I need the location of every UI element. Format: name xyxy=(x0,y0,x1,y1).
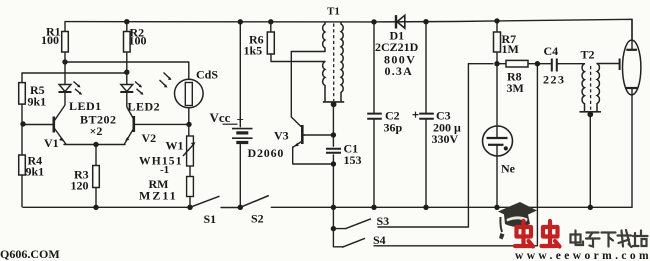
wire: W1 to RM xyxy=(189,166,191,177)
wire: R8/C4 row xyxy=(497,63,585,65)
label R3 value xyxy=(71,168,89,193)
resistor R7 xyxy=(494,32,501,52)
node: R7 top junction xyxy=(494,18,499,23)
wire: T2 bottom lead xyxy=(589,112,591,208)
node: CdS/W1/V2-base junction xyxy=(186,122,191,127)
svg-text:S4: S4 xyxy=(373,233,386,247)
wire: T1 secondary bottom down through C1 to S3/S4 xyxy=(333,105,342,247)
wire: R1 bottom to CdS top (node A) xyxy=(65,62,189,83)
flash tube trigger electrode xyxy=(619,59,621,71)
svg-text:Ne: Ne xyxy=(501,162,516,176)
label RM MZ11 xyxy=(139,177,178,203)
node: C3 top junction xyxy=(423,19,428,24)
node: battery top junction xyxy=(238,19,243,24)
LED LED1 xyxy=(59,62,83,105)
svg-text:1k5: 1k5 xyxy=(244,44,263,58)
capacitor C2 xyxy=(367,114,382,119)
svg-text:Vcc: Vcc xyxy=(210,110,231,125)
photoresistor CdS xyxy=(160,73,204,108)
wire: R7 leads xyxy=(496,21,498,64)
svg-text:36p: 36p xyxy=(384,121,403,135)
label R4 value xyxy=(26,154,45,179)
svg-text:LED1: LED1 xyxy=(69,99,102,113)
node: C1 line bottom rail junction xyxy=(331,205,336,210)
node: R2 top junction xyxy=(124,19,129,24)
svg-text:+: + xyxy=(237,112,244,127)
svg-text:Q606.COM: Q606.COM xyxy=(0,247,60,261)
node: C2 bottom rail junction xyxy=(371,205,376,210)
transformer T2 primary winding xyxy=(582,64,584,112)
wire: S4 output to R8/C4 node xyxy=(374,64,537,246)
wire: bottom rail segment right xyxy=(271,206,632,208)
svg-text:-1: -1 xyxy=(160,164,169,176)
switch S4 xyxy=(342,238,365,247)
svg-text:V2: V2 xyxy=(142,131,157,145)
svg-text:LED2: LED2 xyxy=(128,100,161,114)
svg-text:100: 100 xyxy=(129,34,147,48)
wire: T2 secondary to trigger electrode xyxy=(597,63,620,65)
resistor R2 xyxy=(124,22,131,72)
transistor V3 xyxy=(293,125,305,147)
node: V3 base / C1 top junction xyxy=(331,132,336,137)
label C1 value xyxy=(344,142,362,168)
wire: R6 bottom to T1 feedback winding xyxy=(271,54,325,62)
wire: C3 branch vertical xyxy=(425,22,427,208)
node: V3 emitter / C1 bottom junction xyxy=(331,161,336,166)
label R1 value xyxy=(41,25,61,48)
svg-text:S3: S3 xyxy=(377,214,390,228)
svg-text:D2060: D2060 xyxy=(248,146,285,160)
resistor R8 (horizontal) xyxy=(506,60,528,67)
watermark chong glyph 2 (red) xyxy=(542,221,560,247)
svg-text:www.eeworm.com: www.eeworm.com xyxy=(515,250,650,261)
transformer T2 secondary winding xyxy=(597,64,599,112)
svg-text:9k1: 9k1 xyxy=(28,95,47,109)
svg-text:3M: 3M xyxy=(507,81,524,95)
node: R6 top junction xyxy=(268,19,273,24)
svg-text:100: 100 xyxy=(41,33,59,47)
wire: T1 primary bottom to V3 collector xyxy=(291,52,325,127)
wire: R5 top to LED2 anode (node B) xyxy=(22,72,127,74)
capacitor C1 xyxy=(326,149,341,153)
label D1 value xyxy=(375,29,419,79)
wire: C2 branch vertical xyxy=(373,22,375,207)
wire: Ne bottom lead xyxy=(496,145,498,208)
svg-text:W1: W1 xyxy=(166,139,184,153)
wire: bottom rail segment S1-S2 xyxy=(221,207,240,209)
battery Vcc xyxy=(223,124,253,142)
node: battery bottom rail junction (S2 pivot) xyxy=(238,205,243,210)
neon lamp Ne xyxy=(483,126,513,156)
transformer T1 primary winding xyxy=(323,22,325,52)
wire: flash tube top lead xyxy=(631,19,633,50)
wire: V1-V2 emitter rail xyxy=(64,144,125,146)
svg-text:V1: V1 xyxy=(44,136,59,150)
transformer T1 secondary winding xyxy=(341,22,343,102)
capacitor C4 xyxy=(552,59,557,72)
label WH151 xyxy=(139,156,183,177)
label C3 value xyxy=(432,109,462,147)
label R2 value xyxy=(129,26,147,48)
node: S3 pivot junction xyxy=(331,226,336,231)
wire: V2 base to W1 node xyxy=(135,123,190,125)
resistor R4 xyxy=(19,124,26,207)
transformer T1 feedback winding xyxy=(323,62,325,102)
label C4 value xyxy=(543,44,566,87)
svg-text:CdS: CdS xyxy=(196,68,218,82)
label C2 value xyxy=(384,109,403,135)
transistor V2 xyxy=(124,107,134,144)
transformer T1 bottom bar xyxy=(323,101,344,103)
switch S3 xyxy=(345,219,371,229)
transformer T2 core xyxy=(590,66,592,111)
svg-text:V3: V3 xyxy=(274,129,289,143)
node: Ne bottom rail junction xyxy=(494,205,499,210)
node: R3 bottom rail junction xyxy=(93,205,98,210)
node: R7 bottom / R8 / Ne junction xyxy=(494,61,499,66)
svg-text:153: 153 xyxy=(344,153,362,167)
transformer T2 bottom bar xyxy=(580,111,602,113)
svg-text:T1: T1 xyxy=(327,6,340,18)
wire: V3 emitter to C1 bottom node xyxy=(293,147,334,164)
wire: S3 output to R7 bottom node xyxy=(333,64,493,229)
wire: battery positive lead (Vcc vertical) xyxy=(239,22,241,127)
wire: V1 base from R5/R4 node xyxy=(23,124,53,126)
svg-text:0.3A: 0.3A xyxy=(385,64,413,78)
label R8 value xyxy=(507,70,524,96)
resistor R3 xyxy=(93,145,100,208)
LED LED2 xyxy=(120,72,143,107)
node: emitter rail / R3 junction xyxy=(93,142,98,147)
wire: Ne top lead xyxy=(496,64,498,138)
resistor R5 xyxy=(19,73,26,124)
node: C2 top junction xyxy=(371,19,376,24)
resistor R6 xyxy=(267,22,274,54)
svg-text:223: 223 xyxy=(543,73,566,87)
resistor R1 xyxy=(62,22,69,62)
node: T2 centre-bottom junction xyxy=(587,111,593,117)
wire: top supply rail xyxy=(65,19,632,40)
svg-text:C4: C4 xyxy=(544,44,559,58)
svg-text:330V: 330V xyxy=(432,132,459,146)
label R5 value xyxy=(28,83,47,109)
node: R5/R4/V1-base junction xyxy=(20,121,25,126)
label BT202 x2 xyxy=(80,113,117,139)
wire: V3 base to C1 top node xyxy=(304,134,334,136)
thermistor RM (MZ11) xyxy=(187,177,194,197)
wire: CdS bottom to W1 top xyxy=(188,107,190,136)
watermark graduation cap icon xyxy=(498,202,537,240)
node: R8 / C4 / S4 junction xyxy=(535,61,540,66)
transistor V1 xyxy=(54,105,66,144)
svg-text:T2: T2 xyxy=(581,48,595,62)
wire: bottom rail segment left xyxy=(23,206,190,208)
flash tube VD xyxy=(623,40,641,95)
transformer T1 core xyxy=(333,24,335,102)
label R7 value xyxy=(502,32,519,56)
wire: RM bottom lead xyxy=(189,197,191,208)
svg-text:1M: 1M xyxy=(502,42,519,56)
potentiometer W1 xyxy=(183,136,196,166)
node: R1/LED1/node-A junction xyxy=(62,59,67,64)
capacitor C3 (electrolytic) xyxy=(413,112,434,119)
diode D1 (2CZ21D) xyxy=(396,15,405,28)
wire: flash tube bottom lead xyxy=(631,88,633,207)
node: T1 secondary bottom junction xyxy=(331,101,337,107)
switch S2 xyxy=(240,196,268,208)
watermark text dianzi-xiazai-zhan (drawn glyphs) xyxy=(571,230,648,247)
wire: battery negative lead xyxy=(239,145,241,208)
node: T2 bottom rail junction xyxy=(588,205,593,210)
svg-text:×2: ×2 xyxy=(90,124,103,138)
svg-text:S2: S2 xyxy=(251,212,264,226)
svg-text:MZ11: MZ11 xyxy=(139,189,178,203)
label R6 value xyxy=(244,33,264,58)
svg-text:S1: S1 xyxy=(204,212,217,226)
watermark chong glyph 1 (red) xyxy=(515,221,533,247)
node: C3 bottom rail junction xyxy=(423,205,428,210)
svg-text:120: 120 xyxy=(71,179,89,193)
switch S1 xyxy=(190,196,220,207)
node: RM bottom rail junction (S1 pivot) xyxy=(187,205,192,210)
node: R2/LED2/node-B junction xyxy=(124,70,129,75)
svg-text:9k1: 9k1 xyxy=(26,165,45,179)
